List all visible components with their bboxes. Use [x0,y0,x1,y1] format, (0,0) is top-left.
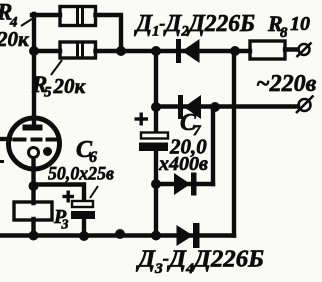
svg-text:3: 3 [61,218,69,233]
svg-text:5: 5 [44,85,52,101]
svg-text:~220в: ~220в [256,71,317,97]
svg-text:20к: 20к [0,27,30,51]
svg-text:20к: 20к [53,74,87,98]
svg-text:50,0х25в: 50,0х25в [48,164,114,185]
svg-text:10: 10 [290,13,310,35]
svg-text:х400в: х400в [158,153,208,175]
svg-text:Д3-Д4Д226Б: Д3-Д4Д226Б [136,247,264,278]
svg-text:Д1-Д2Д226Б: Д1-Д2Д226Б [134,11,255,40]
svg-text:8: 8 [280,25,288,41]
